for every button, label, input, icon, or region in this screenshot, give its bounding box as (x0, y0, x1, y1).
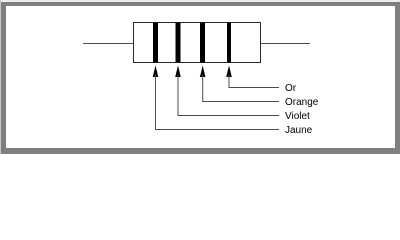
resistor body (134, 23, 261, 63)
svg-text:Jaune: Jaune (285, 125, 313, 136)
band 2 (Violet) (176, 23, 181, 63)
leader arrow to band 4 (226, 66, 279, 88)
svg-text:Orange: Orange (285, 97, 319, 108)
leader arrow to band 2 (175, 66, 279, 116)
leader arrow to band 3 (200, 66, 279, 102)
svg-text:Or: Or (285, 83, 297, 94)
leader arrow to band 1 (153, 66, 279, 130)
band 4 (Or) (227, 23, 231, 63)
wire left lead (83, 43, 134, 45)
band 1 (Jaune) (153, 23, 158, 63)
band 3 (Orange) (200, 23, 205, 63)
wire right lead (261, 43, 311, 45)
svg-text:Violet: Violet (285, 111, 310, 122)
